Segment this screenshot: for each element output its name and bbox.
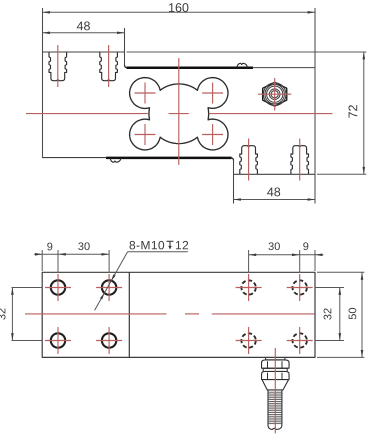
extension line hole col 1 xyxy=(57,250,59,273)
arrow 30r left xyxy=(249,254,256,257)
view1 main horizontal centerline right segment xyxy=(209,113,333,115)
dimension line 9/30 left xyxy=(34,253,109,255)
extension line row 1 right xyxy=(316,287,344,289)
arrow 48 left xyxy=(43,32,50,35)
view2 tapped hole hidden (dashed) xyxy=(241,280,255,294)
view2 hole crosshair vertical xyxy=(108,327,110,354)
view2 tapped hole visible (solid) xyxy=(102,333,116,347)
view1 vertical centerline through clover center xyxy=(178,58,180,165)
arrow 48b right xyxy=(308,198,315,201)
arrow 72 top xyxy=(363,52,366,59)
dimension line 48 top-left xyxy=(43,32,125,34)
dimension text 30 right xyxy=(269,242,280,250)
arrow 9 outside-left xyxy=(35,253,42,256)
view2 inner vertical edge line xyxy=(128,272,130,357)
arrow 9r outside-right xyxy=(315,254,322,257)
view2 hole crosshair horizontal xyxy=(236,340,262,342)
view2 tapped hole visible (solid) xyxy=(102,280,116,294)
view1 clover circle crosshair vertical xyxy=(212,83,214,104)
view1 hex button thread circle r9.7 xyxy=(265,85,284,104)
view1 stud centerline 2 xyxy=(108,45,110,87)
extension line hole col 4 xyxy=(299,250,301,273)
view1 clover-shaped flexure cutout xyxy=(130,78,228,150)
view2 hole crosshair vertical xyxy=(57,327,59,354)
view1 threaded hole stud top-left 2 xyxy=(100,52,118,80)
view2 hole crosshair vertical xyxy=(299,327,301,354)
view2 hole crosshair horizontal xyxy=(45,287,71,289)
leader arrow lower (points to hole) xyxy=(100,293,104,299)
dimension text 160 xyxy=(169,3,188,12)
view2 hole crosshair vertical xyxy=(299,274,301,301)
view2 hole crosshair vertical xyxy=(108,274,110,301)
extension line plate top right xyxy=(317,271,364,273)
stud hex nut 1 xyxy=(262,360,290,368)
view1 body top edge right thin part xyxy=(253,67,316,69)
view2 hole crosshair horizontal xyxy=(287,340,313,342)
extension line hole col 3 xyxy=(248,250,250,273)
dimension line 50 xyxy=(361,272,363,357)
arrow 32L top xyxy=(11,288,14,295)
view1 body top edge (left raised block) xyxy=(42,51,125,53)
stud red centerline xyxy=(274,348,276,433)
view1 hex button thread circle r3.6 xyxy=(271,91,278,98)
label text 12 xyxy=(176,241,188,249)
dimension line 48 bottom-right xyxy=(234,199,316,201)
arrow 32R top xyxy=(339,288,342,295)
extension line row 1 left xyxy=(12,287,43,289)
nut1 facet line left xyxy=(267,361,269,368)
view1 clover circle crosshair vertical xyxy=(144,83,146,104)
view1 threaded hole stud bottom-right 2 xyxy=(291,146,309,174)
view1 bottom step edge + 48 extension line xyxy=(233,159,235,203)
dimension line 160 top xyxy=(43,11,316,13)
view2 tapped hole visible (solid) xyxy=(51,280,65,294)
view1 body right edge + 160/48 extension line xyxy=(314,8,316,204)
view1 threaded hole stud bottom-right 1 xyxy=(240,146,258,174)
view2 hole crosshair horizontal xyxy=(287,287,313,289)
arrow 72 bottom xyxy=(363,167,366,174)
arrow 160 right xyxy=(308,11,315,14)
view1 bottom step rounded corner xyxy=(231,158,234,160)
view1 hex button crosshair vertical xyxy=(274,78,276,111)
extension line for 72 bottom xyxy=(317,173,366,175)
extension line plate bottom right xyxy=(317,356,364,358)
dimension text 30 left xyxy=(78,242,89,250)
arrow 30 right xyxy=(102,253,109,256)
dimension line 72 right xyxy=(363,52,365,174)
view1 hex button thread circle r11.3 xyxy=(263,83,286,106)
view2 centerline short dash xyxy=(185,313,199,315)
arrow 50 top xyxy=(361,272,364,279)
arrow 30 left xyxy=(58,253,65,256)
view1 threaded hole stud top-left 1 xyxy=(49,52,67,80)
view1 step edge + 48 extension line xyxy=(124,28,126,66)
label underline xyxy=(128,251,188,253)
arrow 50 bottom xyxy=(361,350,364,357)
label depth symbol xyxy=(167,241,174,249)
view1 body bottom edge left thin part xyxy=(42,157,107,159)
dimension text 50 xyxy=(349,308,357,319)
dimension text 32 right xyxy=(324,308,332,319)
view1 step rounded corner top xyxy=(125,65,128,68)
view2 tapped hole hidden (dashed) xyxy=(293,333,307,347)
view1 clover circle crosshair vertical xyxy=(144,124,146,145)
view1 clover circle crosshair horizontal xyxy=(135,134,156,136)
nut1 facet line right xyxy=(281,361,283,368)
view1 seal bump on bottom edge xyxy=(110,158,121,162)
view2 hole crosshair horizontal xyxy=(45,340,71,342)
stud threaded shank outline xyxy=(268,390,282,430)
nut2 facet line right xyxy=(281,373,283,380)
view2 centerline long segment right xyxy=(212,313,315,315)
stud washer xyxy=(263,368,287,371)
view1 clover circle crosshair horizontal xyxy=(202,134,223,136)
arrow 30r right xyxy=(292,254,299,257)
view1 hex button thread circle r8.1 xyxy=(267,86,283,102)
dimension text 48 top xyxy=(77,21,90,30)
view2 tapped hole hidden (dashed) xyxy=(293,280,307,294)
view1 clover circle crosshair vertical xyxy=(212,124,214,145)
view2 hole crosshair vertical xyxy=(57,274,59,301)
extension line plate left top xyxy=(41,250,43,271)
view2 hole crosshair vertical xyxy=(248,274,250,301)
nut2 facet line left xyxy=(267,373,269,380)
view2 hole crosshair horizontal xyxy=(96,340,122,342)
view1 hex button crosshair horizontal xyxy=(258,93,291,95)
leader line through hole xyxy=(95,252,128,311)
arrow 48 right xyxy=(117,32,124,35)
arrow 32L bottom xyxy=(11,333,14,340)
view2 centerline long segment left xyxy=(25,313,167,315)
stud hex nut 2 xyxy=(262,371,290,379)
dimension text 9 right xyxy=(303,242,308,250)
view2 tapped hole hidden (dashed) xyxy=(241,333,255,347)
arrow 160 left xyxy=(43,11,50,14)
view2 tapped hole visible (solid) xyxy=(51,333,65,347)
view1 stud centerline 4 xyxy=(299,139,301,181)
view1 main horizontal centerline left segment xyxy=(26,113,148,115)
view1 stud centerline 3 xyxy=(248,139,250,181)
view1 clover center cross horizontal arm xyxy=(169,113,189,115)
view1 hex button thread circle r5.3 xyxy=(269,89,280,100)
view1 hex load button outline xyxy=(263,82,287,106)
view2 plate outline rectangle xyxy=(42,272,315,357)
dimension text 48 bottom xyxy=(267,187,280,196)
view2 hole crosshair horizontal xyxy=(236,287,262,289)
arrow 32R bottom xyxy=(339,333,342,340)
view1 thick cut line along bottom of beam xyxy=(106,157,232,160)
extension line hole col 2 xyxy=(108,250,110,273)
view1 clover circle crosshair horizontal xyxy=(135,92,156,94)
extension line row 2 right xyxy=(316,340,344,342)
view1 body left edge + 160/48 extension line xyxy=(42,8,44,157)
extension line plate right top xyxy=(314,250,316,271)
dimension line 32 right xyxy=(339,288,341,341)
arrow 48b left xyxy=(234,198,241,201)
view1 thick cut line along top of beam xyxy=(127,67,254,70)
stud collar under plate xyxy=(266,358,285,360)
view2 hole crosshair horizontal xyxy=(96,287,122,289)
dimension text 32 left xyxy=(0,308,6,319)
extension line row 2 left xyxy=(12,340,43,342)
dimension line 32 left xyxy=(11,288,13,341)
view1 clover circle crosshair horizontal xyxy=(202,92,223,94)
stud cone section xyxy=(262,380,289,390)
view2 hole crosshair vertical xyxy=(248,327,250,354)
extension line for 72 top xyxy=(127,51,367,53)
view1 stud centerline 1 xyxy=(57,45,59,87)
view1 seal bump on top edge xyxy=(237,63,247,67)
label text 8-M10 xyxy=(130,241,165,250)
leader arrow upper (points to hole) xyxy=(111,274,115,280)
dimension line 30/9 right xyxy=(249,254,324,256)
view1 body bottom edge (right lowered block) xyxy=(234,173,316,175)
dimension text 9 left xyxy=(47,243,52,251)
dimension text 72 xyxy=(348,105,357,118)
